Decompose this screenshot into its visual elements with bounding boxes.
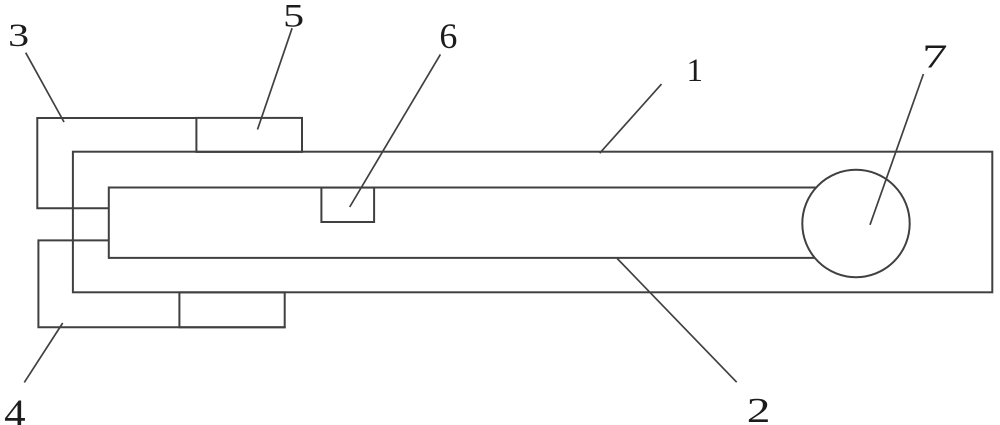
svg-text:2: 2 (747, 391, 771, 425)
leader line 1 (600, 84, 662, 153)
svg-text:3: 3 (8, 18, 29, 54)
upper clamp bracket 3 (37, 118, 109, 208)
svg-text:7: 7 (922, 38, 948, 75)
roller circle 7 (802, 170, 909, 277)
leader line 3 (26, 53, 64, 122)
inner band 2 top edge (109, 187, 830, 189)
svg-text:6: 6 (439, 16, 457, 56)
inner band 2 bottom edge (109, 257, 830, 259)
leader line 4 (24, 323, 62, 382)
upper block 5 (196, 118, 302, 152)
svg-text:5: 5 (283, 0, 304, 35)
svg-text:4: 4 (4, 391, 26, 425)
lower block (179, 292, 284, 327)
lower clamp bracket 4 (38, 240, 285, 327)
leader line 2 (617, 259, 737, 383)
sensor block 6 (321, 188, 374, 222)
leader line 6 (350, 54, 441, 207)
svg-text:1: 1 (687, 53, 704, 89)
arm body outer rectangle 1 (73, 152, 992, 293)
leader line 7 (870, 74, 923, 225)
leader line 5 (258, 28, 293, 129)
top outer edge line (36, 117, 197, 119)
inner band 2 left edge (108, 187, 110, 259)
